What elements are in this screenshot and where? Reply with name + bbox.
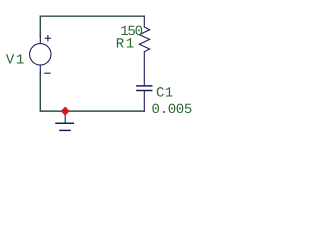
- svg-text:R1: R1: [116, 36, 136, 52]
- svg-text:0.005: 0.005: [152, 102, 193, 118]
- svg-text:C1: C1: [156, 85, 173, 101]
- svg-text:V1: V1: [6, 52, 26, 68]
